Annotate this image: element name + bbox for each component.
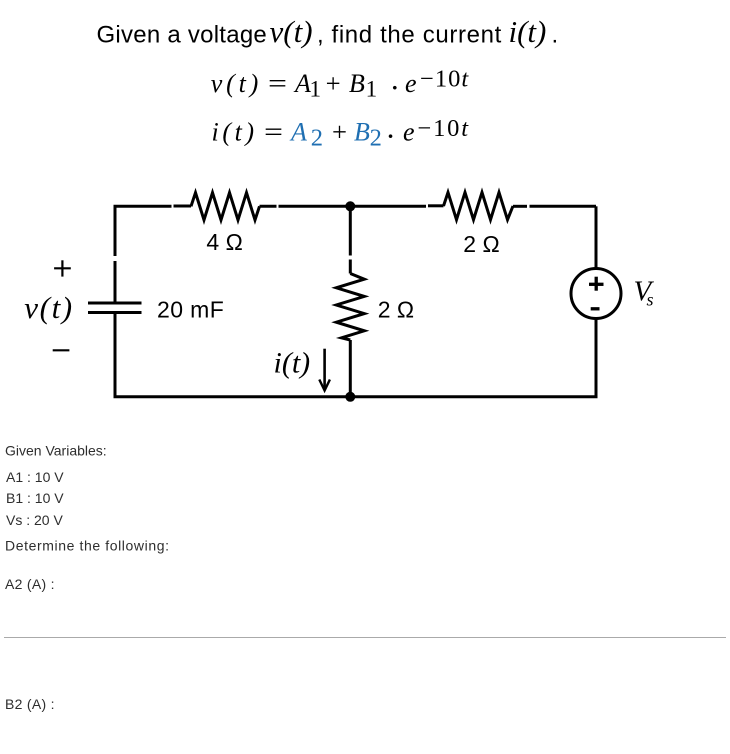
- svg-text:B2 (A) :: B2 (A) :: [5, 696, 55, 712]
- svg-text:s: s: [647, 290, 654, 310]
- current arrow i(t): [319, 349, 330, 391]
- svg-text:find the current: find the current: [332, 22, 503, 49]
- wire: top junction to 2-ohm lead: [350, 205, 426, 208]
- svg-text:A1 : 10 V: A1 : 10 V: [6, 469, 64, 485]
- svg-text:1: 1: [366, 77, 378, 102]
- wire: middle vertical upper second segment: [349, 260, 352, 274]
- capacitor C1 top plate: [88, 302, 142, 305]
- svg-text:B: B: [354, 118, 370, 147]
- svg-text:Given Variables:: Given Variables:: [5, 443, 107, 459]
- plus sign inside VS source: [589, 277, 604, 291]
- wire: right vertical upper: [595, 206, 598, 268]
- wire: middle vertical upper: [349, 206, 352, 255]
- wire: left vertical upper second segment: [114, 261, 117, 303]
- wire: to top junction: [279, 205, 351, 208]
- resistor R1 4ohm zigzag: [191, 193, 260, 220]
- separator line: [4, 637, 726, 639]
- wire: bottom horizontal: [114, 395, 598, 398]
- wire: left vertical upper: [114, 206, 117, 256]
- svg-text:.: .: [552, 22, 559, 49]
- wire: top-left horizontal: [115, 206, 172, 208]
- svg-text:e: e: [403, 118, 415, 147]
- svg-text:i(t): i(t): [509, 14, 547, 49]
- svg-text:1: 1: [310, 77, 322, 102]
- node A top junction dot: [345, 201, 355, 211]
- svg-text:·: ·: [385, 118, 395, 153]
- svg-text:v(t): v(t): [24, 290, 73, 325]
- svg-text:+: +: [326, 69, 341, 98]
- plus sign of v(t) polarity: [54, 260, 71, 276]
- svg-text:4 Ω: 4 Ω: [206, 229, 242, 255]
- wire: lead into 4-ohm resistor: [174, 205, 192, 208]
- equation i(t): [212, 115, 470, 153]
- svg-text:v(t): v(t): [270, 14, 313, 49]
- svg-text:B: B: [349, 69, 365, 98]
- capacitor C1 bottom plate: [88, 311, 142, 314]
- svg-text:2: 2: [370, 125, 382, 152]
- svg-text:Vs : 20 V: Vs : 20 V: [6, 512, 63, 528]
- svg-text:=: =: [268, 69, 287, 98]
- svg-text:2: 2: [311, 125, 323, 152]
- wire: to top-right corner: [530, 205, 597, 208]
- svg-text:v(t): v(t): [211, 69, 262, 98]
- wire: lead out of 4-ohm resistor: [260, 205, 277, 208]
- svg-text:i(t): i(t): [274, 347, 311, 380]
- given variables text: [5, 443, 170, 712]
- node B bottom junction dot: [345, 392, 355, 402]
- title: [97, 14, 559, 49]
- svg-text:i(t): i(t): [212, 118, 258, 147]
- svg-text:−10t: −10t: [418, 115, 470, 142]
- svg-text:Determine the following:: Determine the following:: [5, 537, 170, 553]
- voltage source VS circle: [571, 269, 621, 319]
- wire: left vertical lower: [114, 313, 117, 397]
- svg-text:2 Ω: 2 Ω: [463, 231, 499, 257]
- svg-text:,: ,: [317, 22, 324, 49]
- minus sign of v(t) polarity: [53, 349, 70, 351]
- svg-text:B1 : 10 V: B1 : 10 V: [6, 490, 64, 506]
- wire: lead out of 2-ohm resistor: [513, 205, 527, 208]
- minus sign inside VS source: [591, 307, 600, 310]
- svg-text:e: e: [405, 69, 417, 98]
- svg-text:=: =: [264, 118, 283, 147]
- resistor R3 2ohm vertical zigzag: [336, 274, 364, 341]
- svg-text:20 mF: 20 mF: [157, 296, 224, 322]
- wire: lead into 2-ohm resistor: [428, 204, 444, 207]
- svg-text:Given a voltage: Given a voltage: [97, 22, 268, 49]
- svg-text:+: +: [332, 118, 347, 147]
- svg-text:2 Ω: 2 Ω: [378, 297, 414, 323]
- svg-text:A: A: [293, 69, 311, 98]
- svg-text:−10t: −10t: [420, 66, 469, 93]
- svg-text:·: ·: [390, 70, 400, 105]
- wire: middle vertical lower: [349, 340, 352, 397]
- resistor R2 2ohm zigzag: [444, 192, 514, 219]
- svg-text:A2 (A) :: A2 (A) :: [5, 576, 55, 592]
- equation v(t): [211, 66, 470, 105]
- wire: right vertical lower: [595, 319, 598, 397]
- svg-text:A: A: [289, 118, 307, 147]
